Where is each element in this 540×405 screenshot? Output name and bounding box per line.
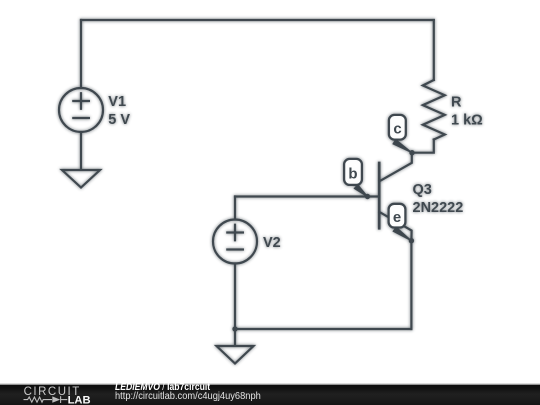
svg-text:R: R — [451, 95, 462, 111]
wire base: V2 corner to transistor base — [235, 195, 378, 197]
transistor Q3 body — [379, 153, 412, 241]
terminal label b — [344, 159, 362, 185]
terminal label b pointer — [354, 184, 368, 197]
svg-text:LAB: LAB — [68, 394, 91, 405]
wire top horizontal V1 to R — [81, 19, 434, 21]
wire V1 bottom to ground — [80, 132, 82, 169]
wire V2 top riser — [234, 197, 236, 220]
footer soft top edge — [0, 383, 540, 385]
svg-text:1 kΩ: 1 kΩ — [451, 113, 483, 129]
node b dot — [365, 194, 370, 199]
resistor R — [423, 80, 445, 140]
node e dot — [409, 238, 414, 243]
wire right vertical to resistor top — [433, 20, 435, 80]
label Q3 2N2222 — [413, 182, 464, 216]
voltage source V1 — [59, 88, 103, 132]
wire bottom horizontal — [235, 328, 411, 330]
wire bottom node to ground — [234, 329, 236, 345]
svg-text:b: b — [348, 166, 357, 183]
emitter diagonal and lead — [379, 212, 411, 241]
wire left vertical to V1 top — [80, 20, 82, 88]
terminal label c pointer — [392, 139, 412, 154]
label R 1 kOhm — [451, 95, 483, 129]
node c dot — [409, 150, 414, 155]
node gnd junction dot — [232, 326, 237, 331]
svg-text:V1: V1 — [108, 94, 126, 110]
ground bottom — [217, 346, 254, 364]
collector diagonal and lead — [379, 153, 412, 182]
svg-text:c: c — [393, 120, 401, 137]
terminal label e pointer — [392, 226, 411, 241]
terminal label e — [389, 204, 406, 228]
svg-text:V2: V2 — [263, 235, 281, 251]
wire emitter node down — [410, 241, 412, 329]
wire V2 bottom to bottom node — [234, 264, 236, 330]
circuitlab logo — [0, 384, 110, 405]
terminal label c — [389, 115, 406, 140]
svg-text:Q3: Q3 — [413, 182, 432, 198]
svg-text:2N2222: 2N2222 — [413, 200, 464, 216]
ground under V1 — [62, 170, 100, 188]
base bar — [378, 163, 381, 228]
label V2 — [263, 235, 281, 251]
voltage source V2 — [213, 220, 257, 264]
footer credit text — [115, 383, 210, 393]
svg-text:e: e — [393, 209, 401, 226]
svg-text:5 V: 5 V — [108, 112, 130, 128]
wire resistor bottom lead and left to collector node — [412, 140, 434, 153]
footer black bar — [0, 385, 540, 405]
label V1 5V — [108, 94, 130, 128]
